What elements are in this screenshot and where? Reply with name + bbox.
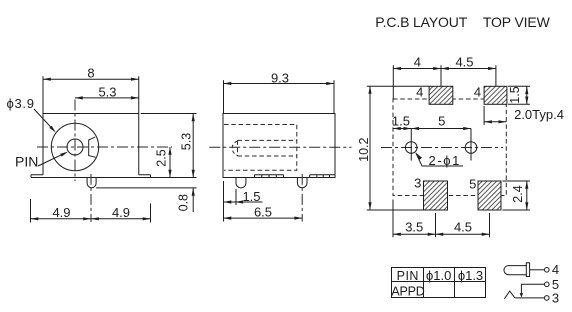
label PIN bbox=[15, 150, 69, 169]
svg-text:APPD: APPD bbox=[391, 284, 424, 298]
pin seating line bbox=[96, 187, 196, 189]
svg-text:P.C.B LAYOUT: P.C.B LAYOUT bbox=[375, 14, 467, 30]
pad 3 bbox=[424, 181, 448, 210]
dim 9.3 bbox=[224, 71, 335, 114]
front view flange bottom bbox=[31, 177, 151, 179]
svg-text:TOP VIEW: TOP VIEW bbox=[483, 14, 551, 30]
svg-text:5: 5 bbox=[438, 114, 445, 129]
dim 1.5 side bbox=[224, 181, 263, 222]
svg-text:4.5: 4.5 bbox=[454, 220, 472, 235]
hole centerline ticks bbox=[411, 129, 471, 161]
dim 0.8 bbox=[177, 188, 195, 212]
svg-text:4.5: 4.5 bbox=[455, 55, 473, 70]
dim 2.0 Typ.4 bbox=[484, 106, 564, 125]
svg-text:2.4: 2.4 bbox=[511, 185, 525, 202]
dim 5.3 right bbox=[141, 114, 197, 178]
svg-text:2-ϕ1: 2-ϕ1 bbox=[429, 153, 461, 168]
svg-text:4.9: 4.9 bbox=[112, 205, 130, 220]
switch spring contact bbox=[504, 291, 515, 299]
svg-text:4.9: 4.9 bbox=[52, 205, 70, 220]
dim 6.5 bbox=[224, 205, 303, 220]
label 2-dia1 leader bbox=[415, 152, 463, 168]
solder pin (front) bbox=[87, 178, 96, 188]
pad 4 right bbox=[484, 86, 507, 104]
vertical centerline of barrel bbox=[74, 100, 76, 182]
hidden barrel cavity left cap dashed bbox=[232, 141, 237, 156]
svg-text:ϕ1.0: ϕ1.0 bbox=[426, 268, 451, 283]
pcb outline dashed bbox=[393, 99, 506, 196]
hole left bbox=[405, 142, 417, 154]
svg-text:1.5: 1.5 bbox=[242, 189, 260, 204]
dim 1.5 pad height bbox=[508, 86, 530, 104]
terminal 3 lead bbox=[515, 297, 545, 299]
right pin centerline bbox=[301, 174, 303, 222]
dim 4 / 4.5 top bbox=[393, 55, 496, 100]
side view body outline bbox=[223, 114, 335, 178]
terminal 5 circle bbox=[545, 282, 550, 287]
pad 5 bbox=[478, 181, 501, 210]
svg-text:PIN: PIN bbox=[397, 269, 419, 283]
dim 8 bbox=[43, 65, 139, 113]
svg-text:4: 4 bbox=[416, 85, 423, 100]
terminal 4 lead bbox=[530, 269, 545, 271]
front view flange right tab bbox=[139, 175, 151, 178]
table grid bbox=[392, 268, 486, 298]
svg-text:5.3: 5.3 bbox=[179, 133, 193, 150]
dim 5.3 top bbox=[75, 85, 139, 100]
svg-text:3: 3 bbox=[552, 291, 559, 306]
hole right bbox=[465, 142, 477, 154]
svg-text:1.5: 1.5 bbox=[508, 86, 522, 103]
svg-text:9.3: 9.3 bbox=[271, 71, 289, 86]
svg-text:1.5: 1.5 bbox=[392, 114, 410, 129]
svg-text:8: 8 bbox=[87, 65, 94, 80]
barrel key notch bbox=[89, 137, 96, 157]
svg-text:10.2: 10.2 bbox=[357, 137, 371, 161]
label dia 3.9 bbox=[7, 96, 57, 133]
center pin inner circle bbox=[67, 139, 83, 155]
serration teeth group 1 bbox=[255, 175, 284, 178]
hidden barrel cavity dashed bbox=[238, 140, 297, 156]
svg-text:4: 4 bbox=[414, 55, 421, 70]
svg-text:ϕ1.3: ϕ1.3 bbox=[458, 268, 483, 283]
svg-text:6.5: 6.5 bbox=[254, 205, 272, 220]
svg-text:4: 4 bbox=[474, 85, 481, 100]
vertical centerline of solder pin bbox=[90, 174, 92, 222]
barrel outer circle bbox=[51, 123, 98, 170]
svg-text:2.5: 2.5 bbox=[155, 149, 169, 166]
pcb centerline bbox=[381, 147, 503, 149]
side view centerline bbox=[209, 146, 351, 148]
front view flange left tab bbox=[31, 175, 43, 178]
dim 1.5 / 5 holes bbox=[392, 114, 471, 130]
serration teeth group 2 bbox=[310, 175, 335, 178]
plug flange bar bbox=[526, 263, 529, 277]
svg-text:0.8: 0.8 bbox=[177, 194, 191, 211]
side view left pin bbox=[236, 178, 246, 188]
dim 3.5 / 4.5 bottom bbox=[393, 200, 490, 238]
svg-text:2.0Typ.4: 2.0Typ.4 bbox=[514, 107, 564, 122]
svg-text:5: 5 bbox=[469, 177, 476, 192]
plug barrel bbox=[504, 266, 527, 275]
dim 2.5 bbox=[151, 147, 197, 178]
terminal 3 circle bbox=[545, 296, 550, 301]
front view body outline bbox=[43, 114, 139, 175]
dim 10.2 bbox=[357, 86, 429, 210]
terminal 4 circle bbox=[545, 268, 550, 273]
terminal 5 lead bbox=[521, 284, 544, 296]
dim 4.9 4.9 bbox=[31, 199, 151, 223]
horizontal centerline bbox=[37, 146, 172, 148]
svg-text:4: 4 bbox=[552, 262, 559, 277]
junction contact point bbox=[520, 293, 523, 297]
hidden housing dashed outline bbox=[224, 125, 297, 171]
svg-text:3.5: 3.5 bbox=[405, 220, 423, 235]
svg-text:5.3: 5.3 bbox=[98, 85, 116, 100]
side view right pin bbox=[297, 178, 307, 188]
dim 2.4 bbox=[503, 181, 531, 210]
svg-text:ϕ3.9: ϕ3.9 bbox=[7, 96, 35, 111]
pad 4 left bbox=[429, 86, 453, 104]
svg-text:3: 3 bbox=[414, 176, 421, 191]
svg-text:PIN: PIN bbox=[15, 154, 38, 170]
